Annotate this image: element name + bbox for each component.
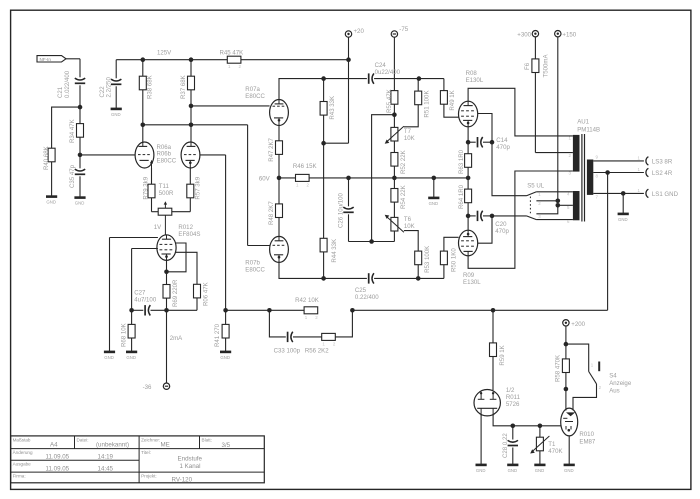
svg-text:C33 100p: C33 100p (274, 347, 301, 354)
svg-text:E80CC: E80CC (245, 266, 265, 273)
svg-text:C14: C14 (496, 137, 508, 144)
svg-text:GND: GND (508, 468, 518, 473)
svg-text:GND: GND (111, 112, 121, 117)
svg-text:R40 68K: R40 68K (43, 146, 50, 170)
svg-text:GND: GND (476, 468, 486, 473)
svg-text:470K: 470K (548, 448, 562, 455)
svg-text:+20: +20 (354, 28, 365, 35)
svg-text:R57 3k9: R57 3k9 (194, 176, 201, 199)
svg-text:R56 2K2: R56 2K2 (305, 347, 329, 354)
svg-text:Endstufe: Endstufe (178, 456, 203, 463)
svg-text:2.2/250: 2.2/250 (106, 77, 113, 98)
svg-text:1 Kanal: 1 Kanal (180, 463, 201, 470)
svg-text:R011: R011 (506, 394, 521, 401)
svg-text:R38 68K: R38 68K (147, 75, 154, 99)
svg-text:14:45: 14:45 (98, 465, 114, 472)
svg-text:Titel:: Titel: (141, 450, 151, 455)
svg-text:GND: GND (75, 201, 85, 206)
svg-text:E80CC: E80CC (245, 93, 265, 100)
svg-text:NF-In: NF-In (40, 57, 52, 62)
svg-text:EM87: EM87 (579, 439, 596, 446)
svg-text:Maßstab: Maßstab (13, 437, 31, 442)
svg-text:GND: GND (429, 201, 439, 206)
svg-text:0.22/400: 0.22/400 (355, 294, 379, 301)
svg-text:60V: 60V (259, 176, 271, 183)
svg-text:Firma:: Firma: (13, 474, 26, 479)
svg-text:R63 1R0: R63 1R0 (458, 149, 465, 174)
svg-text:R54 22K: R54 22K (400, 185, 407, 209)
svg-text:R51 100K: R51 100K (424, 90, 431, 117)
svg-text:R64 1R0: R64 1R0 (458, 184, 465, 209)
svg-text:R59 1K: R59 1K (499, 345, 506, 365)
svg-text:R49 1K: R49 1K (449, 90, 456, 110)
svg-text:0u22/400: 0u22/400 (375, 69, 401, 76)
svg-text:4u7/100: 4u7/100 (134, 297, 157, 304)
svg-text:GND: GND (104, 355, 114, 360)
svg-text:R010: R010 (579, 431, 594, 438)
svg-text:T1: T1 (548, 441, 556, 448)
svg-text:R37 68K: R37 68K (180, 75, 187, 99)
svg-text:R45 47K: R45 47K (220, 50, 244, 57)
svg-text:R53 100K: R53 100K (424, 246, 431, 273)
svg-text:+200: +200 (571, 321, 585, 328)
svg-text:-75: -75 (399, 26, 408, 33)
svg-text:S4: S4 (609, 373, 617, 380)
svg-text:T6: T6 (404, 216, 412, 223)
svg-text:500R: 500R (159, 190, 174, 197)
svg-text:-36: -36 (143, 384, 152, 391)
svg-text:AU1: AU1 (577, 118, 589, 125)
svg-text:R58 470K: R58 470K (555, 355, 562, 382)
svg-text:R07a: R07a (245, 86, 260, 93)
svg-text:R08: R08 (466, 70, 478, 77)
svg-text:R52 22K: R52 22K (400, 150, 407, 174)
svg-text:E130L: E130L (463, 279, 481, 286)
svg-text:R69 220R: R69 220R (172, 279, 179, 307)
svg-text:R50 1K0: R50 1K0 (451, 248, 458, 272)
svg-text:470p: 470p (496, 144, 510, 151)
svg-text:11.09.05: 11.09.05 (46, 454, 70, 461)
svg-text:R79 3k9: R79 3k9 (143, 176, 150, 199)
svg-text:C26 10u/100: C26 10u/100 (337, 192, 344, 228)
svg-text:R42 10K: R42 10K (295, 297, 319, 304)
svg-text:1V: 1V (154, 224, 162, 231)
svg-text:3/5: 3/5 (222, 442, 231, 449)
svg-text:C25: C25 (355, 287, 367, 294)
svg-text:R06 47K: R06 47K (203, 282, 210, 306)
svg-text:Anzeige: Anzeige (609, 380, 632, 387)
svg-text:GND: GND (618, 217, 628, 222)
svg-text:T7: T7 (404, 128, 412, 135)
svg-text:+300: +300 (517, 31, 531, 38)
svg-text:R43 33K: R43 33K (329, 96, 336, 120)
svg-text:Datei:: Datei: (77, 437, 89, 442)
svg-text:Änderung: Änderung (13, 449, 33, 455)
svg-text:Ausgabe: Ausgabe (13, 462, 32, 467)
svg-text:Projekt:: Projekt: (141, 474, 157, 479)
svg-text:14:19: 14:19 (98, 454, 114, 461)
svg-text:R41 270: R41 270 (214, 323, 221, 347)
svg-text:C20: C20 (495, 221, 507, 228)
svg-text:0.022/400: 0.022/400 (64, 70, 71, 98)
svg-text:GND: GND (564, 468, 574, 473)
svg-text:R012: R012 (178, 224, 193, 231)
svg-text:LS2 4R: LS2 4R (652, 170, 673, 177)
svg-text:LS3 8R: LS3 8R (652, 158, 673, 165)
svg-text:R44 33K: R44 33K (331, 239, 338, 263)
svg-text:T500mA: T500mA (543, 54, 550, 78)
svg-text:C24: C24 (375, 62, 387, 69)
svg-text:E130L: E130L (466, 77, 484, 84)
svg-text:10K: 10K (404, 135, 415, 142)
svg-text:(unbekannt): (unbekannt) (96, 441, 129, 448)
svg-text:125V: 125V (157, 50, 172, 57)
svg-text:R68 10K: R68 10K (121, 323, 128, 347)
svg-text:10K: 10K (404, 223, 415, 230)
svg-text:R55 47K: R55 47K (386, 89, 393, 113)
svg-text:GND: GND (46, 200, 56, 205)
svg-text:R09: R09 (463, 272, 475, 279)
svg-text:E80CC: E80CC (157, 158, 177, 165)
svg-text:5726: 5726 (506, 401, 520, 408)
svg-text:A4: A4 (50, 441, 58, 448)
svg-text:EF804S: EF804S (178, 231, 200, 238)
svg-text:+150: +150 (562, 31, 576, 38)
svg-text:F6: F6 (524, 62, 531, 70)
svg-text:C28 0.22: C28 0.22 (502, 433, 509, 458)
svg-text:ME: ME (161, 442, 170, 449)
svg-text:PM114B: PM114B (577, 127, 600, 134)
svg-text:2mA: 2mA (170, 335, 183, 342)
svg-text:470p: 470p (495, 228, 509, 235)
svg-text:S5 UL: S5 UL (527, 182, 545, 189)
svg-text:LS1 GND: LS1 GND (652, 191, 679, 198)
svg-text:R34 47K: R34 47K (69, 119, 76, 143)
svg-text:GND: GND (220, 355, 230, 360)
svg-text:R48 2K7: R48 2K7 (268, 201, 275, 225)
svg-text:R46 15K: R46 15K (293, 163, 317, 170)
svg-text:1/2: 1/2 (506, 387, 515, 394)
svg-text:R47 2K7: R47 2K7 (268, 137, 275, 161)
svg-text:C27: C27 (134, 290, 146, 297)
svg-text:R07b: R07b (245, 259, 260, 266)
svg-text:Blatt:: Blatt: (202, 437, 212, 442)
svg-text:Zeichner:: Zeichner: (141, 437, 160, 442)
svg-text:C35 47p: C35 47p (69, 164, 76, 188)
svg-text:GND: GND (126, 355, 136, 360)
svg-text:11.09.05: 11.09.05 (46, 465, 70, 472)
svg-text:GND: GND (535, 468, 545, 473)
svg-text:Aus: Aus (609, 387, 620, 394)
